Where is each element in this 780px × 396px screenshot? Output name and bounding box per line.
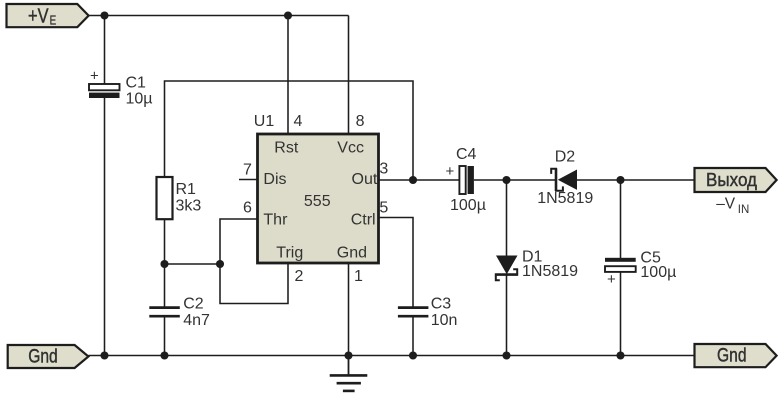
- wire feedback Out to R1 top: [165, 81, 414, 180]
- node R1 / C2: [160, 260, 168, 268]
- svg-text:C2: C2: [183, 296, 204, 313]
- node gnd / C2: [160, 351, 168, 359]
- svg-text:IN: IN: [738, 204, 750, 216]
- svg-text:1N5819: 1N5819: [537, 190, 593, 207]
- wire node to Trig pin 2: [220, 263, 288, 304]
- svg-text:C1: C1: [126, 75, 147, 92]
- wire node to node horizontal: [165, 263, 221, 265]
- svg-text:Gnd: Gnd: [717, 346, 747, 367]
- svg-text:+V: +V: [28, 6, 49, 28]
- svg-text:Trig: Trig: [276, 245, 303, 262]
- svg-text:8: 8: [356, 113, 365, 130]
- wire Dis pin 7 stub: [239, 179, 258, 181]
- svg-text:C3: C3: [431, 296, 452, 313]
- svg-text:Ctrl: Ctrl: [351, 212, 376, 229]
- node Thr / Trig: [216, 260, 224, 268]
- node out / D1: [502, 176, 510, 184]
- flag Выход output: [695, 168, 777, 192]
- capacitor C2: [149, 296, 210, 330]
- wire R1 bottom to node: [164, 219, 166, 264]
- svg-text:E: E: [50, 12, 57, 27]
- svg-text:U1: U1: [254, 113, 275, 130]
- wire D1 vertical bottom: [506, 275, 508, 356]
- svg-text:D2: D2: [555, 149, 576, 166]
- wire left vertical lower from C1: [104, 93, 106, 356]
- diode D1 1N5819: [495, 249, 578, 281]
- capacitor C3: [398, 296, 458, 330]
- svg-text:5: 5: [379, 200, 388, 217]
- node gnd / C1: [100, 351, 108, 359]
- node rail / pin4: [284, 11, 292, 19]
- svg-text:10µ: 10µ: [126, 91, 153, 108]
- wire ground rail: [89, 355, 695, 357]
- wire left vertical upper to C1: [104, 16, 106, 86]
- svg-text:4n7: 4n7: [183, 312, 210, 329]
- svg-text:Out: Out: [352, 171, 378, 188]
- svg-text:Выход: Выход: [706, 169, 757, 190]
- diode D2 1N5819: [537, 149, 593, 208]
- svg-text:1: 1: [354, 268, 363, 285]
- node +VE rail / C1: [100, 11, 108, 19]
- wire D1 vertical top: [506, 180, 508, 256]
- node gnd / D1: [502, 351, 510, 359]
- label -VIN: [716, 196, 749, 216]
- wire C4 to D2: [474, 179, 555, 181]
- op IC U1 555 body: [258, 134, 379, 263]
- svg-text:C4: C4: [456, 146, 477, 163]
- wire pin 8 to rail: [348, 16, 350, 135]
- svg-text:555: 555: [304, 193, 331, 210]
- svg-text:Rst: Rst: [274, 140, 299, 157]
- svg-text:100µ: 100µ: [640, 264, 676, 281]
- wire Ctrl pin 5 to C3: [379, 218, 414, 307]
- svg-text:–V: –V: [716, 196, 736, 213]
- svg-text:+: +: [90, 68, 99, 85]
- wire C5 vertical top: [620, 180, 622, 258]
- capacitor C4: [446, 146, 486, 214]
- wire C2 bottom: [164, 317, 166, 356]
- svg-text:R1: R1: [176, 181, 197, 198]
- resistor R1: [157, 177, 202, 219]
- ground symbol: [330, 356, 368, 391]
- wire C5 vertical bottom: [620, 272, 622, 356]
- svg-text:Dis: Dis: [263, 171, 286, 188]
- wire pin 1 Gnd to rail: [348, 263, 350, 356]
- node gnd / C3: [409, 351, 417, 359]
- flag Gnd left: [8, 345, 89, 368]
- flag +VE: [7, 4, 89, 28]
- svg-text:+: +: [607, 271, 616, 288]
- wire top rail +VE: [89, 15, 349, 17]
- wire C2 top: [164, 264, 166, 307]
- svg-text:Thr: Thr: [263, 212, 288, 229]
- wire D2 to output flag: [577, 179, 695, 181]
- svg-text:3k3: 3k3: [176, 198, 202, 215]
- wire Out pin 3 to C4: [379, 179, 460, 181]
- node gnd / pin1: [344, 351, 352, 359]
- svg-text:10n: 10n: [431, 312, 458, 329]
- svg-text:Gnd: Gnd: [28, 347, 58, 368]
- capacitor C5: [605, 249, 676, 288]
- svg-text:Gnd: Gnd: [337, 245, 367, 262]
- node gnd / C5: [616, 351, 624, 359]
- node out / C5: [616, 176, 624, 184]
- svg-text:+: +: [446, 163, 455, 180]
- node out / feedback: [409, 176, 417, 184]
- flag Gnd right: [695, 344, 777, 367]
- capacitor C1: [89, 68, 153, 108]
- svg-text:7: 7: [243, 162, 252, 179]
- svg-text:3: 3: [379, 161, 388, 178]
- svg-text:1N5819: 1N5819: [522, 263, 578, 280]
- wire C3 bottom: [412, 317, 414, 356]
- wire pin 4 to rail: [287, 16, 289, 135]
- svg-text:2: 2: [295, 268, 304, 285]
- svg-text:6: 6: [243, 200, 252, 217]
- wire node to Thr pin 6: [220, 219, 258, 264]
- svg-text:Vcc: Vcc: [337, 140, 364, 157]
- svg-text:4: 4: [294, 113, 303, 130]
- svg-text:100µ: 100µ: [450, 197, 486, 214]
